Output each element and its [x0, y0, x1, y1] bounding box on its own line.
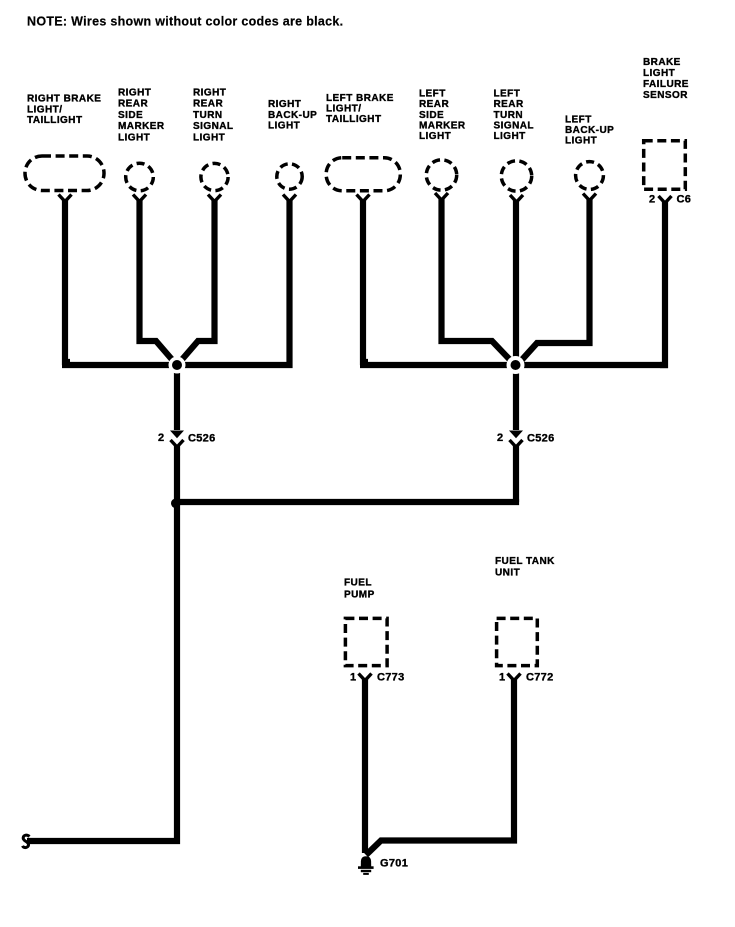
- label: brake light failure sensor: [643, 57, 689, 101]
- label: left back-up light: [565, 115, 614, 147]
- svg-text:RIGHT: RIGHT: [193, 88, 226, 99]
- wire: node B down to connector C526 (left side harness): [513, 369, 519, 430]
- connector Y at left back-up light: [583, 194, 596, 201]
- svg-text:TAILLIGHT: TAILLIGHT: [326, 114, 382, 125]
- svg-text:RIGHT: RIGHT: [268, 99, 301, 110]
- wire: node A down to connector C526 (right side harness): [174, 369, 180, 430]
- svg-text:SIGNAL: SIGNAL: [494, 121, 534, 132]
- svg-text:LIGHT: LIGHT: [118, 132, 150, 143]
- svg-text:REAR: REAR: [419, 99, 449, 110]
- svg-text:SENSOR: SENSOR: [643, 90, 688, 101]
- connector Y at right rear side marker light: [133, 195, 146, 202]
- svg-text:LEFT: LEFT: [419, 88, 446, 99]
- svg-text:2: 2: [497, 432, 503, 444]
- label: right back-up light: [268, 99, 317, 132]
- node B halo: [507, 356, 525, 374]
- connector C526 (right harness): male arrow: [170, 431, 184, 439]
- wire: left rear side marker light to node B: [442, 198, 514, 364]
- svg-text:LEFT BRAKE: LEFT BRAKE: [326, 93, 394, 104]
- wire: left back-up light to node B: [519, 198, 590, 363]
- ground G701 symbol: bar 3: [363, 873, 369, 875]
- node A halo: [169, 357, 186, 374]
- node B junction dot: [511, 360, 521, 370]
- wire: left rear turn signal light to node B: [513, 200, 519, 362]
- label: left rear side marker light: [419, 88, 466, 142]
- svg-text:G701: G701: [380, 858, 408, 870]
- wire: fuel pump down to ground G701: [362, 678, 368, 853]
- svg-text:PUMP: PUMP: [344, 590, 375, 601]
- label: right brake light/taillight: [27, 94, 101, 127]
- svg-text:REAR: REAR: [494, 99, 524, 110]
- svg-text:LEFT: LEFT: [494, 88, 521, 99]
- ground G701 symbol: bar 1: [358, 866, 374, 869]
- fuel tank unit (dashed box): [497, 618, 538, 665]
- svg-text:TAILLIGHT: TAILLIGHT: [27, 115, 83, 126]
- svg-text:TURN: TURN: [193, 110, 223, 121]
- node C junction dot: [171, 499, 181, 509]
- wire: brake light failure sensor down to bus of node B: [660, 201, 665, 366]
- svg-text:NOTE: Wires shown without colo: NOTE: Wires shown without color codes ar…: [27, 15, 343, 29]
- svg-text:BACK-UP: BACK-UP: [268, 110, 317, 121]
- label: left brake light/taillight: [326, 93, 394, 125]
- svg-text:C772: C772: [526, 672, 554, 684]
- svg-text:LIGHT: LIGHT: [565, 136, 597, 147]
- svg-text:RIGHT BRAKE: RIGHT BRAKE: [27, 94, 101, 105]
- wire: right C526 down to node C: [174, 445, 180, 505]
- svg-text:LEFT: LEFT: [565, 115, 592, 126]
- svg-text:FUEL: FUEL: [344, 578, 372, 589]
- svg-text:BRAKE: BRAKE: [643, 57, 681, 68]
- svg-text:1: 1: [350, 672, 356, 684]
- connector Y at brake light failure sensor: [659, 196, 672, 203]
- wire: right back-up light to node A: [182, 199, 290, 365]
- wire: left C526 down to crossover: [513, 445, 519, 502]
- svg-text:LIGHT: LIGHT: [643, 68, 675, 79]
- wire: node C down to bottom-left continuation: [27, 502, 177, 841]
- svg-text:C526: C526: [527, 433, 555, 445]
- svg-text:FUEL TANK: FUEL TANK: [495, 556, 555, 567]
- wire: fuel tank unit down to ground G701: [366, 678, 514, 855]
- svg-text:2: 2: [649, 194, 655, 206]
- svg-text:LIGHT: LIGHT: [193, 132, 225, 143]
- svg-text:2: 2: [158, 432, 164, 444]
- label: left rear turn signal light: [494, 88, 534, 142]
- connector C526 (right harness): female V: [171, 440, 184, 447]
- label: fuel pump: [344, 578, 375, 601]
- svg-text:SIDE: SIDE: [419, 110, 444, 121]
- fuel pump (dashed box): [345, 618, 387, 665]
- svg-text:C526: C526: [188, 433, 216, 445]
- svg-text:REAR: REAR: [193, 99, 223, 110]
- svg-text:C773: C773: [377, 672, 405, 684]
- wire: bus from node B to brake light failure sensor: [521, 362, 668, 368]
- ground G701 symbol: bell terminal: [361, 856, 371, 867]
- label: right rear side marker light: [118, 88, 165, 144]
- connector Y at right brake light: [59, 195, 72, 202]
- svg-text:SIGNAL: SIGNAL: [193, 121, 233, 132]
- wire: bus from right brake light to node A: [62, 362, 170, 368]
- svg-text:1: 1: [499, 672, 505, 684]
- wire: bus from left brake light to node B: [360, 362, 510, 368]
- svg-text:LIGHT: LIGHT: [268, 121, 300, 132]
- label: fuel tank unit: [495, 556, 555, 579]
- connector Y at right back-up light: [283, 195, 296, 202]
- node A junction dot: [172, 360, 182, 370]
- connector Y at right rear turn signal light: [208, 195, 221, 202]
- wire: right brake light down to bus of node A: [65, 199, 70, 362]
- svg-text:SIDE: SIDE: [118, 110, 143, 121]
- wire: left brake light down to bus of node B: [363, 199, 368, 362]
- svg-text:RIGHT: RIGHT: [118, 88, 151, 99]
- svg-text:LIGHT/: LIGHT/: [27, 104, 62, 115]
- svg-text:MARKER: MARKER: [419, 121, 466, 132]
- svg-text:C6: C6: [677, 194, 692, 206]
- lamp: right back-up light (dashed circle): [277, 164, 302, 189]
- continuation S mark at left wire end: [23, 835, 30, 847]
- svg-text:BACK-UP: BACK-UP: [565, 125, 614, 136]
- wire: right rear turn signal light to node A: [179, 199, 215, 363]
- wire: right rear side marker light to node A: [140, 199, 176, 363]
- lamp: right rear turn signal light (dashed circle): [201, 163, 228, 190]
- lamp: right rear side marker light (dashed circle): [126, 163, 154, 191]
- svg-text:LIGHT/: LIGHT/: [326, 104, 361, 115]
- lamp: left brake light/taillight (dashed stadium): [326, 158, 400, 191]
- connector Y at fuel tank unit: [508, 674, 521, 681]
- brake light failure sensor (dashed box): [644, 141, 686, 190]
- svg-text:FAILURE: FAILURE: [643, 79, 689, 90]
- connector Y at fuel pump: [359, 674, 372, 681]
- svg-text:LIGHT: LIGHT: [494, 131, 526, 142]
- lamp: left rear side marker light (dashed circle): [426, 160, 456, 190]
- connector C526 (left harness): female V: [510, 440, 523, 447]
- svg-text:MARKER: MARKER: [118, 121, 165, 132]
- svg-text:TURN: TURN: [494, 110, 524, 121]
- connector C526 (left harness): male arrow: [509, 431, 523, 439]
- wire: crossover from left harness to node C: [177, 499, 516, 502]
- lamp: left rear turn signal light (dashed circle): [501, 161, 531, 191]
- svg-text:UNIT: UNIT: [495, 568, 520, 579]
- ground G701 symbol: bar 2: [361, 870, 371, 872]
- connector Y at left rear side marker light: [435, 193, 448, 200]
- lamp: left back-up light (dashed circle): [576, 162, 604, 190]
- svg-text:REAR: REAR: [118, 99, 148, 110]
- lamp: right brake light/taillight (dashed stadium): [25, 156, 104, 191]
- connector Y at left rear turn signal light: [510, 195, 523, 202]
- svg-text:LIGHT: LIGHT: [419, 131, 451, 142]
- connector Y at left brake light: [357, 195, 370, 202]
- label: right rear turn signal light: [193, 88, 233, 144]
